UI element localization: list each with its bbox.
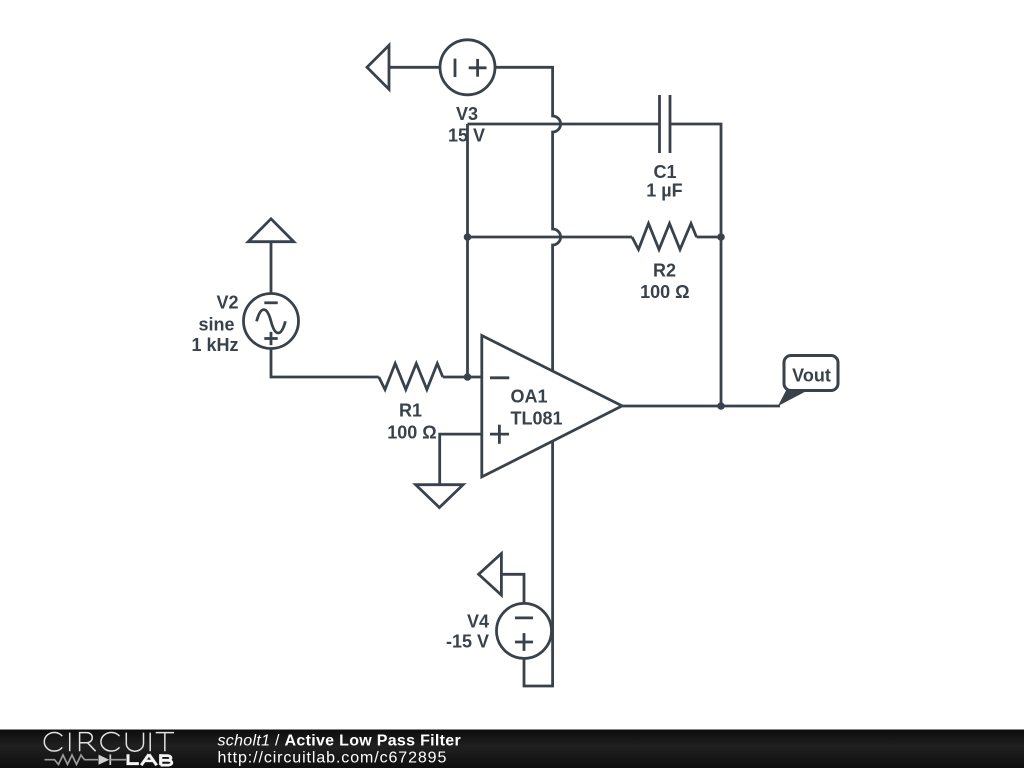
wire top to C1 [468,123,660,126]
op-amp OA1 [482,336,622,477]
wire V2 top to flag [270,242,273,294]
svg-text:R1: R1 [399,401,422,421]
wire C1 to right rail [670,124,721,237]
svg-text:R2: R2 [653,261,676,281]
svg-text:scholt1 / Active Low Pass Filt: scholt1 / Active Low Pass Filter [218,733,461,750]
wire V2 bottom to R1 [271,349,379,378]
wire V3 to +supply rail with hops [495,67,561,371]
wire R1 to op-amp minus input [443,376,482,379]
sine source V2 [244,294,299,349]
svg-text:-15 V: -15 V [446,632,489,652]
svg-text:1 µF: 1 µF [646,181,682,201]
svg-text:100 Ω: 100 Ω [387,423,436,443]
wire V4 top to flag [501,574,524,603]
voltage source V4 [497,603,552,658]
wire feedback left rail [466,124,469,377]
svg-text:OA1: OA1 [511,387,548,407]
wire right rail down to output [720,237,723,406]
net flag V2 top [248,219,294,242]
Vout flag [778,356,838,407]
wire op-amp plus input to ground [440,434,482,485]
wire R2 left [468,236,633,239]
svg-text:15 V: 15 V [448,126,485,146]
svg-text:TL081: TL081 [511,409,563,429]
logo CIRCUIT [44,732,174,751]
wire flag to V3 [389,66,440,69]
svg-text:100 Ω: 100 Ω [640,282,689,302]
logo LAB [128,754,172,765]
junction node at minus input [464,373,472,381]
resistor R2 [632,224,697,250]
net flag V4 left [479,554,502,596]
voltage source V3 [440,40,495,95]
svg-text:sine: sine [198,315,234,335]
svg-text:V4: V4 [467,612,489,632]
svg-text:1 kHz: 1 kHz [191,335,238,355]
wire R2 right [697,236,722,239]
footer bar [0,730,1024,768]
junction node at output [717,402,725,410]
capacitor C1 [660,95,671,153]
resistor R1 [379,364,443,390]
junction node at R2 right [717,233,725,241]
svg-text:V2: V2 [216,293,238,313]
svg-text:V3: V3 [456,104,478,124]
wire output [622,405,780,408]
junction node at R2 left [464,233,472,241]
svg-text:http://circuitlab.com/c672895: http://circuitlab.com/c672895 [218,750,448,767]
ground [416,485,464,508]
svg-text:C1: C1 [653,162,676,182]
wire -supply rail to V4 [524,441,553,686]
net flag V3 left [367,45,389,89]
svg-text:Vout: Vout [792,366,831,386]
logo squiggle resistor-diode [45,754,127,765]
